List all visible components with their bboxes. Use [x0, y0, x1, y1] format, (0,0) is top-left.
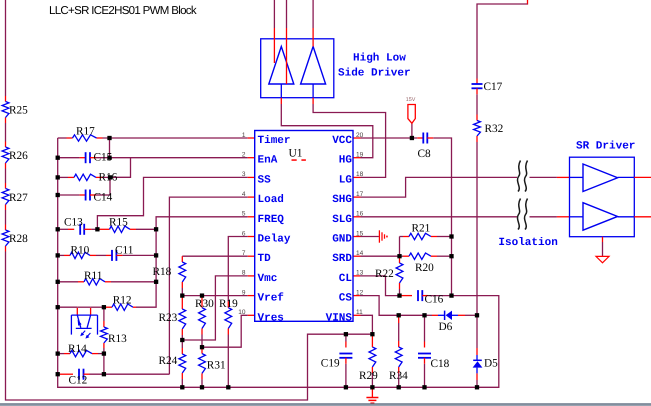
svg-text:R19: R19 [219, 298, 238, 310]
svg-text:R20: R20 [415, 262, 434, 274]
svg-text:Side Driver: Side Driver [338, 68, 411, 80]
svg-text:GND: GND [332, 234, 352, 246]
svg-text:CS: CS [339, 293, 353, 305]
svg-text:HG: HG [339, 155, 353, 167]
svg-text:LG: LG [339, 174, 353, 186]
svg-text:16: 16 [356, 211, 364, 218]
svg-text:R29: R29 [359, 370, 378, 382]
svg-text:18: 18 [356, 171, 364, 178]
svg-text:R15: R15 [109, 217, 128, 229]
svg-text:C11: C11 [115, 245, 133, 257]
svg-text:10: 10 [238, 309, 246, 316]
svg-text:U1: U1 [289, 147, 303, 159]
svg-text:Timer: Timer [258, 135, 291, 147]
svg-text:C14: C14 [94, 192, 113, 204]
svg-text:7: 7 [242, 250, 246, 257]
svg-text:R18: R18 [153, 266, 172, 278]
svg-text:R28: R28 [9, 233, 28, 245]
svg-text:20: 20 [356, 132, 364, 139]
svg-text:R10: R10 [71, 245, 90, 257]
svg-text:High Low: High Low [353, 53, 406, 65]
svg-text:8: 8 [242, 270, 246, 277]
svg-text:R30: R30 [195, 298, 214, 310]
svg-text:R16: R16 [99, 172, 118, 184]
svg-text:15: 15 [356, 230, 364, 237]
svg-text:R17: R17 [76, 126, 95, 138]
svg-text:C19: C19 [321, 358, 340, 370]
svg-text:17: 17 [356, 191, 364, 198]
svg-text:Load: Load [258, 194, 284, 206]
svg-text:D5: D5 [484, 358, 498, 370]
svg-text:R23: R23 [159, 312, 178, 324]
svg-text:C16: C16 [425, 294, 444, 306]
svg-text:R12: R12 [113, 295, 132, 307]
svg-text:C13: C13 [64, 217, 83, 229]
svg-text:FREQ: FREQ [258, 214, 285, 226]
svg-text:4: 4 [242, 191, 246, 198]
svg-text:SRD: SRD [332, 253, 352, 265]
svg-text:SS: SS [258, 174, 272, 186]
svg-text:R14: R14 [68, 343, 87, 355]
svg-text:VCC: VCC [332, 135, 352, 147]
svg-text:EnA: EnA [258, 155, 278, 167]
svg-text:2: 2 [242, 152, 246, 159]
svg-text:19: 19 [356, 152, 364, 159]
svg-text:R25: R25 [9, 105, 28, 117]
svg-text:Isolation: Isolation [498, 237, 557, 249]
svg-text:R21: R21 [412, 223, 431, 235]
svg-text:12: 12 [356, 289, 364, 296]
svg-text:LLC+SR ICE2HS01 PWM Block: LLC+SR ICE2HS01 PWM Block [49, 5, 197, 17]
svg-text:R27: R27 [9, 192, 28, 204]
svg-text:CL: CL [339, 273, 353, 285]
svg-text:R34: R34 [389, 370, 408, 382]
svg-text:5: 5 [242, 211, 246, 218]
svg-text:6: 6 [242, 230, 246, 237]
svg-text:9: 9 [242, 289, 246, 296]
svg-text:R31: R31 [207, 360, 226, 372]
svg-text:Vmc: Vmc [258, 273, 278, 285]
svg-text:C8: C8 [418, 148, 432, 160]
svg-text:TD: TD [258, 253, 272, 265]
svg-text:R22: R22 [375, 268, 394, 280]
svg-text:VINS: VINS [326, 312, 353, 324]
svg-text:SLG: SLG [332, 214, 352, 226]
svg-text:R32: R32 [485, 123, 504, 135]
svg-text:SR Driver: SR Driver [576, 141, 635, 153]
svg-text:C15: C15 [94, 152, 113, 164]
svg-text:1: 1 [242, 132, 246, 139]
svg-text:R11: R11 [84, 270, 102, 282]
svg-text:14: 14 [356, 250, 364, 257]
svg-text:15V: 15V [406, 97, 416, 103]
svg-text:Delay: Delay [258, 234, 291, 246]
svg-text:Vres: Vres [258, 312, 284, 324]
svg-text:3: 3 [242, 171, 246, 178]
svg-text:C12: C12 [69, 375, 88, 387]
svg-text:13: 13 [356, 270, 364, 277]
svg-text:R26: R26 [9, 150, 28, 162]
svg-text:11: 11 [356, 309, 363, 316]
svg-text:Vref: Vref [258, 292, 285, 305]
svg-text:R13: R13 [108, 333, 127, 345]
svg-text:C17: C17 [484, 81, 503, 93]
svg-text:R24: R24 [159, 355, 178, 367]
svg-text:C18: C18 [431, 358, 450, 370]
svg-text:SHG: SHG [332, 194, 352, 206]
svg-text:D6: D6 [439, 321, 453, 333]
